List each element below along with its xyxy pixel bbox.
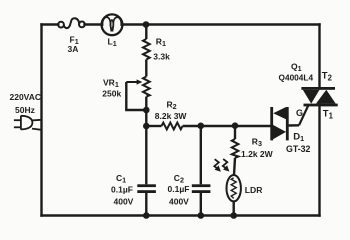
plug AC source	[14, 116, 42, 130]
label R2	[155, 100, 188, 122]
svg-text:8.2k 3W: 8.2k 3W	[155, 111, 188, 121]
node R3 top	[232, 122, 239, 129]
label LDR	[245, 185, 263, 195]
label Q1	[279, 62, 314, 83]
triac Q1	[301, 87, 337, 106]
node LDR bottom	[230, 212, 237, 219]
fuse F1	[58, 18, 85, 28]
wire top bus between fuse and lamp	[85, 23, 102, 25]
wire right side	[318, 25, 320, 89]
svg-text:C2: C2	[174, 173, 184, 185]
svg-text:220VAC: 220VAC	[10, 92, 42, 102]
wire top bus right segment	[123, 23, 320, 25]
label D1	[286, 131, 311, 154]
wire diac to gate	[289, 105, 309, 126]
label R3	[241, 136, 274, 159]
wire mid bus to R2	[146, 125, 161, 127]
light arrow 2	[223, 159, 230, 172]
svg-text:LDR: LDR	[245, 185, 263, 195]
node C2 top	[198, 123, 205, 130]
light arrow 1	[214, 159, 221, 172]
svg-text:GT-32: GT-32	[286, 144, 311, 154]
svg-text:L1: L1	[108, 36, 117, 48]
svg-text:400V: 400V	[114, 197, 134, 207]
label 220VAC 50Hz	[10, 92, 42, 115]
resistor R1	[143, 25, 150, 77]
wire VR1 to mid bus	[145, 110, 147, 126]
wire mid bus R2 to diac	[183, 125, 271, 127]
wire right side lower	[318, 105, 320, 216]
svg-text:0.1µF: 0.1µF	[111, 185, 133, 195]
resistor R2	[162, 123, 183, 130]
VR1 wiper arrow	[126, 81, 139, 83]
VR1 wiper loop wire	[126, 82, 146, 110]
svg-text:C1: C1	[116, 173, 126, 185]
svg-text:0.1µF: 0.1µF	[168, 184, 190, 194]
potentiometer VR1	[126, 77, 149, 111]
svg-text:1.2k 2W: 1.2k 2W	[241, 149, 274, 159]
lamp L1	[102, 14, 123, 35]
wire top bus left segment	[42, 23, 59, 25]
svg-text:50Hz: 50Hz	[15, 105, 35, 115]
label L1	[108, 36, 117, 48]
node C1 bottom	[143, 212, 150, 219]
svg-text:250k: 250k	[102, 88, 121, 98]
label T1	[323, 108, 334, 120]
capacitor C1	[137, 126, 156, 216]
svg-text:Q4004L4: Q4004L4	[279, 72, 314, 82]
label VR1	[102, 78, 121, 99]
label R1	[153, 36, 170, 61]
svg-text:G: G	[296, 108, 303, 118]
resistor R3	[232, 126, 239, 175]
svg-text:3A: 3A	[68, 44, 79, 54]
label T2	[322, 71, 333, 83]
capacitor C2	[192, 126, 211, 216]
wire left side	[40, 25, 42, 216]
node mid bus left	[143, 123, 150, 130]
diac D1	[270, 107, 288, 140]
node junction top of R1	[143, 21, 150, 28]
LDR	[227, 175, 241, 216]
node VR1 bottom	[143, 107, 150, 114]
svg-text:R2: R2	[167, 100, 177, 112]
node C2 bottom	[198, 212, 205, 219]
svg-text:R1: R1	[156, 36, 166, 48]
label C1	[111, 173, 134, 207]
svg-text:D1: D1	[293, 131, 304, 143]
svg-text:3.3k: 3.3k	[153, 51, 170, 61]
label G	[296, 108, 303, 118]
wire bottom bus	[42, 214, 320, 216]
svg-text:400V: 400V	[169, 197, 189, 207]
label C2	[168, 173, 190, 207]
label F1	[68, 35, 79, 55]
svg-text:R3: R3	[252, 136, 262, 148]
